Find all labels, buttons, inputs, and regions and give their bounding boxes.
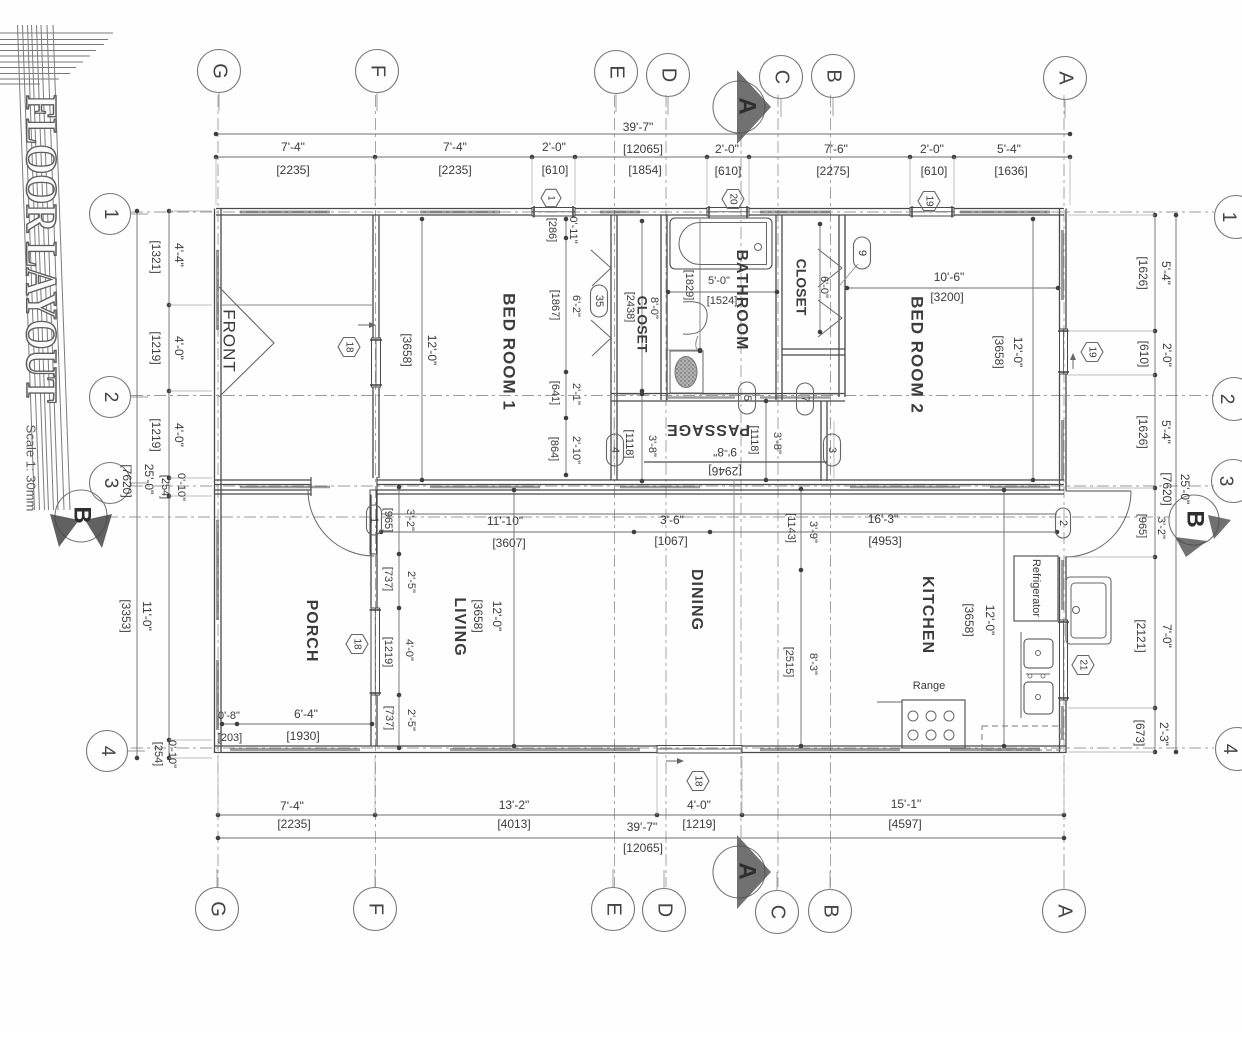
svg-text:FLOOR LAYOUT: FLOOR LAYOUT: [17, 95, 66, 403]
svg-text:7'-4": 7'-4": [281, 140, 305, 154]
svg-text:0'-10": 0'-10": [175, 473, 187, 501]
svg-text:[1854]: [1854]: [628, 163, 661, 177]
svg-text:0'-11": 0'-11": [567, 216, 579, 243]
svg-text:[610]: [610]: [921, 164, 948, 178]
passage width dims 3-8: [623, 392, 658, 484]
svg-text:18: 18: [343, 341, 354, 353]
svg-text:11'-0": 11'-0": [140, 601, 154, 631]
window 21 (right wall, kitchen): [1058, 620, 1069, 700]
svg-text:[1219]: [1219]: [682, 817, 715, 831]
svg-text:5: 5: [741, 395, 753, 401]
svg-text:4'-0": 4'-0": [403, 639, 415, 661]
svg-text:[2235]: [2235]: [277, 817, 310, 831]
svg-text:5'-4": 5'-4": [997, 142, 1021, 156]
svg-text:3: 3: [100, 478, 121, 489]
FRONT direction chevron: [219, 287, 274, 397]
svg-text:21: 21: [1077, 659, 1088, 671]
title strip vertical border band: [18, 25, 71, 510]
stadium marker 4: [607, 434, 624, 466]
svg-text:19: 19: [923, 195, 934, 207]
svg-text:[1143]: [1143]: [785, 513, 797, 543]
label Range: [913, 680, 945, 692]
svg-text:BED ROOM 2: BED ROOM 2: [908, 296, 927, 414]
grid row lines 1 2 3 4 (dash-dot): [131, 212, 1214, 748]
svg-text:[1636]: [1636]: [994, 164, 1027, 178]
svg-text:18: 18: [351, 638, 362, 650]
svg-text:3'-6": 3'-6": [660, 513, 684, 527]
stadium marker 35: [591, 285, 608, 317]
stadium marker 3: [824, 434, 841, 466]
svg-text:[1321]: [1321]: [149, 240, 163, 273]
door 4 tag line: [613, 418, 615, 462]
svg-text:[2235]: [2235]: [276, 163, 309, 177]
label KITCHEN: [919, 576, 936, 654]
svg-text:2'-3": 2'-3": [1157, 722, 1171, 746]
svg-text:39'-7": 39'-7": [623, 120, 654, 134]
svg-text:A: A: [1054, 904, 1076, 918]
stadium marker 7: [797, 383, 814, 415]
svg-text:E: E: [606, 65, 628, 78]
svg-text:B: B: [823, 69, 845, 82]
hexagon marker 1 (top window): [541, 189, 561, 206]
svg-text:[1930]: [1930]: [286, 729, 319, 743]
wall poche marks: [218, 212, 1063, 750]
interior wall passage south: [644, 461, 827, 463]
svg-text:[864]: [864]: [548, 437, 560, 461]
closet-2 bifold doors: [818, 249, 858, 337]
dashed appliance box: [982, 726, 1060, 750]
svg-text:12'-0": 12'-0": [1011, 337, 1025, 368]
svg-text:G: G: [209, 63, 231, 79]
svg-text:B: B: [820, 904, 842, 917]
svg-text:7'-4": 7'-4": [443, 140, 467, 154]
svg-text:2: 2: [1216, 394, 1237, 405]
svg-text:KITCHEN: KITCHEN: [919, 576, 936, 654]
hexagon marker 21: [1072, 656, 1094, 675]
interior mid wall lower pair: [215, 490, 1065, 494]
svg-text:13'-2": 13'-2": [499, 798, 530, 812]
interior mid wall upper pair: [215, 480, 1065, 485]
label BED ROOM 2: [908, 296, 927, 414]
scale note: [24, 425, 39, 512]
label BATHROOM: [733, 249, 750, 350]
svg-text:[3200]: [3200]: [930, 290, 963, 304]
hexagon marker 18 bottom: [687, 772, 709, 791]
svg-text:[4597]: [4597]: [888, 817, 921, 831]
svg-text:5'-4": 5'-4": [1159, 420, 1173, 444]
exterior wall bottom: [215, 746, 1067, 753]
grid bubbles left 1 2 3 4: [87, 194, 131, 772]
grid bubbles bottom G F E D C B A: [196, 888, 1086, 934]
svg-text:[254]: [254]: [152, 742, 164, 766]
hexagon marker 19 top: [918, 192, 940, 211]
small arrows: [358, 322, 1076, 764]
svg-text:[1118]: [1118]: [623, 430, 635, 459]
svg-text:3: 3: [1215, 476, 1236, 487]
svg-text:DINING: DINING: [688, 569, 705, 631]
kitchen dim 12-0: [962, 488, 1006, 749]
svg-text:B: B: [1182, 510, 1209, 527]
interior wall bathroom west: [661, 215, 667, 400]
title strip hatch (top-left corner horizontal wedge lines): [0, 33, 113, 84]
hexagon marker 20: [722, 190, 744, 209]
section marker A bottom: [713, 835, 771, 909]
svg-text:4: 4: [97, 746, 118, 757]
window 20 (top wall, bathroom): [707, 206, 749, 218]
interior wall closet-2 east: [839, 215, 845, 397]
svg-text:7'-4": 7'-4": [280, 799, 304, 813]
svg-text:[7620]: [7620]: [1160, 472, 1174, 505]
svg-text:[2121]: [2121]: [1134, 619, 1148, 652]
section line B-B (horizontal): [106, 516, 1170, 518]
svg-text:[3658]: [3658]: [400, 333, 414, 366]
svg-text:11'-10": 11'-10": [487, 514, 523, 528]
svg-text:3'-8": 3'-8": [771, 432, 783, 454]
section marker B right: [1169, 495, 1231, 557]
svg-text:2'-1": 2'-1": [570, 383, 582, 405]
svg-text:2'-10": 2'-10": [570, 436, 582, 464]
svg-text:[610]: [610]: [715, 164, 742, 178]
svg-text:35: 35: [593, 295, 605, 307]
bed room 2 dim 10-6: [845, 270, 1061, 304]
svg-text:BED ROOM 1: BED ROOM 1: [500, 293, 519, 411]
stadium marker 9: [854, 237, 871, 269]
svg-text:4'-0": 4'-0": [172, 423, 186, 447]
svg-text:[673]: [673]: [1133, 720, 1147, 747]
svg-text:A: A: [1055, 71, 1077, 85]
svg-text:[1626]: [1626]: [1136, 415, 1150, 448]
svg-text:E: E: [603, 902, 625, 915]
svg-text:[2515]: [2515]: [783, 647, 795, 678]
svg-text:[610]: [610]: [1137, 341, 1151, 368]
refrigerator: [1014, 556, 1058, 621]
svg-text:39'-7": 39'-7": [627, 820, 658, 834]
window 19 (top wall, bed room 2): [910, 206, 954, 218]
svg-text:6'-2": 6'-2": [570, 295, 582, 317]
svg-text:[12065]: [12065]: [623, 142, 663, 156]
closet-1 dim 8-0: [624, 219, 660, 394]
bathtub: [670, 218, 772, 269]
svg-text:20: 20: [727, 193, 738, 205]
svg-text:25'-0": 25'-0": [1178, 474, 1192, 505]
svg-text:[4013]: [4013]: [497, 817, 530, 831]
interior wall passage east / bed room 2: [821, 401, 827, 481]
window 1 (top wall, closet): [532, 206, 575, 218]
svg-text:[610]: [610]: [542, 163, 569, 177]
svg-text:25'-0": 25'-0": [142, 464, 156, 495]
door 5 tag: [0, 0, 1, 1]
living dim 12-0: [471, 488, 516, 749]
window 18 (wall F, bed room 1): [370, 338, 382, 387]
svg-text:[2438]: [2438]: [624, 292, 636, 323]
svg-text:PORCH: PORCH: [303, 600, 320, 663]
top segment dimension line: [214, 140, 1073, 205]
svg-text:3: 3: [826, 447, 838, 453]
svg-text:CLOSET: CLOSET: [634, 296, 650, 353]
svg-text:19: 19: [1086, 346, 1097, 358]
svg-text:C: C: [771, 70, 793, 84]
grid column lines G F E D C B A (dash-dot): [218, 95, 1064, 887]
interior wall passage north (bath+closet south): [611, 394, 845, 402]
svg-text:8'-3": 8'-3": [807, 653, 819, 675]
svg-text:[1219]: [1219]: [382, 637, 394, 668]
outside sink: [1066, 577, 1111, 644]
label PORCH: [303, 600, 320, 663]
svg-text:2'-5": 2'-5": [405, 709, 417, 731]
svg-text:4'-4": 4'-4": [172, 243, 186, 267]
svg-text:3'-2": 3'-2": [404, 509, 416, 531]
interior wall F (front strip / bed room 1): [373, 215, 379, 478]
top overall dimension line 39-7: [214, 120, 1073, 156]
hexagon marker 18 porch: [346, 635, 368, 654]
label CLOSET 1: [634, 296, 650, 353]
bubble stems: [128, 93, 1066, 891]
stadium marker 2 door: [1056, 508, 1071, 538]
svg-text:F: F: [367, 65, 389, 77]
svg-text:12'-0": 12'-0": [983, 605, 997, 636]
svg-text:FRONT: FRONT: [220, 309, 239, 373]
svg-text:A: A: [734, 97, 761, 114]
stadium marker 5: [739, 382, 756, 414]
svg-text:[1626]: [1626]: [1136, 256, 1150, 289]
window 18 (porch east wall): [370, 608, 382, 695]
grid bubbles right 1 2 3 4 (clipped at edge): [1212, 196, 1242, 771]
label DINING: [688, 569, 705, 631]
door 3 tag line: [833, 421, 835, 481]
svg-text:[7620]: [7620]: [120, 464, 134, 497]
door 2 (kitchen to outside) leaf+arc: [1065, 491, 1131, 557]
wash basin: [683, 302, 707, 351]
svg-text:2'-5": 2'-5": [405, 571, 417, 593]
toilet: [668, 348, 703, 393]
section marker B left: [50, 490, 112, 548]
svg-text:16'-3": 16'-3": [868, 512, 899, 526]
hexagon marker 19 right: [1081, 343, 1103, 362]
svg-text:[965]: [965]: [382, 508, 394, 532]
bottom segment dimension line: [216, 756, 1067, 831]
svg-text:[3353]: [3353]: [119, 599, 133, 632]
svg-text:[1524]: [1524]: [707, 295, 738, 307]
svg-text:7'-0": 7'-0": [1160, 624, 1174, 648]
svg-text:[737]: [737]: [383, 706, 395, 730]
label FRONT: [220, 309, 239, 373]
closet-2 dim 6-0: [818, 222, 830, 335]
exterior wall left: [215, 209, 222, 754]
svg-text:[2275]: [2275]: [816, 164, 849, 178]
svg-text:18: 18: [692, 775, 703, 787]
interior wall closet-2 divider: [782, 349, 845, 355]
svg-text:2'-0": 2'-0": [715, 142, 739, 156]
svg-text:[254]: [254]: [159, 475, 171, 499]
svg-text:[12065]: [12065]: [623, 841, 663, 855]
svg-text:[3658]: [3658]: [962, 603, 976, 636]
label LIVING: [451, 597, 468, 656]
svg-text:10'-6": 10'-6": [934, 270, 965, 284]
kitchen counter edge: [1020, 632, 1022, 718]
svg-text:2'-0": 2'-0": [1160, 343, 1174, 367]
svg-text:Range: Range: [913, 680, 945, 692]
drawing title FLOOR LAYOUT (rotated): [17, 95, 66, 403]
svg-text:[1829]: [1829]: [683, 270, 695, 301]
svg-text:[737]: [737]: [382, 567, 394, 591]
svg-text:6'-0": 6'-0": [818, 276, 830, 298]
dining/kitchen vertical chain 3-9 8-3: [783, 487, 819, 749]
svg-text:5'-0": 5'-0": [708, 275, 730, 287]
svg-text:9: 9: [856, 250, 868, 256]
stadium marker 1 door: [367, 505, 382, 535]
label BED ROOM 1: [500, 293, 519, 411]
svg-text:4: 4: [609, 447, 621, 453]
svg-text:2'-0": 2'-0": [542, 140, 566, 154]
svg-text:9'-8": 9'-8": [713, 445, 737, 459]
svg-text:Scale 1: 30mm: Scale 1: 30mm: [24, 425, 39, 512]
svg-text:[1219]: [1219]: [149, 331, 163, 364]
svg-text:[965]: [965]: [1136, 514, 1148, 538]
svg-text:[641]: [641]: [549, 381, 561, 405]
section marker A top: [713, 70, 771, 144]
svg-text:G: G: [207, 901, 229, 917]
lower zone top dimension lines: [379, 512, 1060, 550]
svg-text:5'-4": 5'-4": [1159, 261, 1173, 285]
exterior wall top: [216, 209, 1064, 216]
svg-text:LIVING: LIVING: [451, 597, 468, 656]
svg-text:Refrigerator: Refrigerator: [1030, 559, 1042, 617]
front area ledge line: [221, 304, 372, 306]
svg-text:[3658]: [3658]: [471, 599, 485, 632]
svg-text:D: D: [658, 68, 680, 82]
svg-text:4: 4: [1219, 744, 1240, 755]
interior wall closet-1 west / passage west: [611, 215, 617, 480]
svg-text:[3658]: [3658]: [992, 335, 1006, 368]
svg-text:7'-6": 7'-6": [824, 142, 848, 156]
passage length dim 9-8 (upside down): [708, 445, 741, 478]
label CLOSET 2: [793, 259, 809, 316]
porch bottom small dims: [218, 707, 375, 744]
exterior wall right: [1060, 209, 1067, 754]
right dimension chain: [1068, 213, 1174, 755]
svg-text:0'-10": 0'-10": [166, 740, 178, 768]
svg-text:3'-8": 3'-8": [646, 435, 658, 457]
svg-text:4'-0": 4'-0": [687, 798, 711, 812]
bed room 2 dim 12-0: [992, 217, 1035, 483]
interior chain left of closet-1: [546, 216, 582, 477]
bed room 1 dim 12-0: [400, 217, 439, 483]
left inner dimension chain: [149, 209, 212, 768]
svg-text:6'-4": 6'-4": [294, 707, 318, 721]
svg-text:C: C: [767, 905, 789, 919]
svg-text:15'-1": 15'-1": [891, 797, 922, 811]
svg-text:2'-0": 2'-0": [920, 142, 944, 156]
svg-text:1: 1: [1218, 212, 1239, 223]
svg-text:[2235]: [2235]: [438, 163, 471, 177]
svg-text:2: 2: [1057, 520, 1069, 526]
door 1 (front to porch) leaf+arc: [308, 490, 377, 556]
svg-text:[1867]: [1867]: [549, 290, 561, 321]
svg-text:0'-8": 0'-8": [218, 710, 240, 722]
svg-text:[2946]: [2946]: [708, 464, 741, 478]
right outer dimension line 25-0: [1136, 213, 1192, 755]
svg-text:PASSAGE: PASSAGE: [666, 421, 750, 438]
grid bubbles top G F E D C B A: [198, 50, 1087, 100]
svg-text:4'-0": 4'-0": [172, 336, 186, 360]
porch east wall dimension chain: [382, 485, 417, 751]
svg-text:3'-2": 3'-2": [1155, 517, 1167, 539]
svg-text:[1067]: [1067]: [654, 534, 687, 548]
bathroom dim 5-0: [666, 219, 780, 353]
svg-text:1: 1: [368, 517, 380, 523]
svg-text:BATHROOM: BATHROOM: [733, 249, 750, 350]
svg-text:B: B: [69, 506, 96, 523]
svg-text:[203]: [203]: [218, 732, 242, 744]
svg-text:1: 1: [100, 209, 121, 220]
svg-text:[1219]: [1219]: [149, 418, 163, 451]
svg-text:1: 1: [547, 195, 557, 200]
svg-text:D: D: [654, 903, 676, 917]
svg-text:[286]: [286]: [546, 218, 558, 242]
svg-text:CLOSET: CLOSET: [793, 259, 809, 316]
interior wall bathroom east: [776, 215, 782, 400]
section line A-A (vertical): [740, 135, 742, 845]
hexagon marker 18 wall F: [338, 338, 360, 357]
svg-text:2: 2: [100, 392, 121, 403]
window 18 (bottom wall, dining): [657, 746, 742, 754]
left outer dimension line 25-0 / 11-0: [119, 209, 156, 761]
svg-text:[4953]: [4953]: [868, 534, 901, 548]
door 1 jambs: [311, 477, 377, 496]
closet-1 bifold doors: [591, 250, 611, 356]
bottom overall dimension line 39-7: [216, 820, 1067, 855]
svg-text:12'-0": 12'-0": [490, 601, 504, 632]
interior wall porch east: [371, 495, 377, 747]
kitchen double sink: [1024, 639, 1053, 714]
range: [877, 700, 965, 748]
label PASSAGE (upside down): [666, 421, 750, 438]
kitchen/dining partition line: [733, 480, 735, 746]
window 19 (right wall, bed room 2): [1058, 329, 1069, 374]
svg-text:3'-9": 3'-9": [807, 521, 819, 543]
svg-text:[3607]: [3607]: [492, 536, 525, 550]
svg-text:7: 7: [799, 396, 811, 402]
svg-text:F: F: [365, 903, 387, 915]
svg-text:A: A: [734, 862, 761, 879]
svg-text:12'-0": 12'-0": [425, 335, 439, 366]
